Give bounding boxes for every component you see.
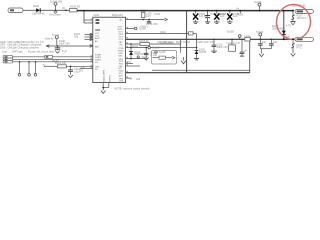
series box on STAT wire [45,55,53,58]
svg-text:R100 0R: R100 0R [70,4,80,8]
node junction with label [62,6,67,11]
svg-text:GND 3: GND 3 [140,24,148,28]
sub-box regulator outline [152,51,177,65]
svg-text:L101 4.7uH: L101 4.7uH [227,41,240,45]
wire diode to resistor [41,9,70,11]
testpoint Tp101 on BAT net [52,33,70,46]
svg-text:R104: R104 [132,44,139,48]
svg-text:TS: TS [80,69,84,73]
svg-text:NOTE: external crystal needed: NOTE: external crystal needed [115,86,150,90]
IC pin name labels right column [118,18,124,82]
svg-text:PG: PG [127,60,131,64]
capacitor C112 drop [258,39,267,49]
jumper drop pins [18,61,37,76]
svg-text:Tp108: Tp108 [254,0,262,4]
svg-text:10k: 10k [81,65,86,69]
svg-text:D100: D100 [33,4,40,8]
svg-text:R102 10k: R102 10k [55,61,67,65]
svg-text:PG: PG [95,62,98,64]
node at x84 [83,10,85,12]
svg-text:ALRT: ALRT [95,37,101,40]
wire between FB and VTSB [130,44,132,51]
connector J101 DC pill [292,4,314,14]
ground arrow inside box [181,57,186,64]
net arrow Vbat wire to BAT pin [45,36,93,47]
svg-text:ADR: ADR [95,29,100,32]
OUT rail2 wire [126,38,295,40]
net arrows into IC left pins [85,33,93,41]
svg-text:Tp105: Tp105 [227,29,235,33]
ground arrow under IC [101,91,106,94]
VFB stub resistor [126,77,141,81]
joined ground of C112 C113 [259,49,271,57]
diode on rail2 at box edge [176,40,215,44]
svg-text:OFFLight: OFFLight [12,49,23,53]
series inductor L102 on rail2 [245,34,251,41]
svg-text:BQ24123: BQ24123 [112,13,123,17]
svg-text:C104: C104 [154,12,161,16]
fuse F100 [291,41,302,53]
svg-text:D102 CMHZ: D102 CMHZ [176,40,191,44]
capacitor C110 drop [211,39,228,53]
net-tie diamond [50,11,62,17]
svg-text:Vbat 4V: Vbat 4V [45,36,54,40]
outer module box left edge [186,11,188,73]
ground under C100 [55,51,60,54]
svg-text:CMHZ: CMHZ [199,50,207,54]
DNI capacitor X1 [193,10,209,24]
outer module box right edge [249,39,251,72]
svg-text:U100: U100 [93,13,100,17]
legend text block [0,40,67,53]
connector J1 input pill [8,8,23,13]
IC pin name labels left column [95,19,102,71]
capacitor C100 [55,46,60,50]
svg-text:ONLight: ONLight [8,45,18,49]
wires header to IC [13,57,93,62]
svg-text:VSS: VSS [119,81,124,83]
SDA long wire [126,72,250,74]
CE2 stub [126,65,140,67]
PG2 stub [126,60,133,64]
node stub x240 [236,6,244,16]
pin number marks left of IC [91,19,93,69]
svg-text:10k: 10k [136,77,141,81]
capacitor C101 [68,66,81,75]
svg-text:1uF: 1uF [273,40,278,44]
capacitor C111 drop [240,39,248,57]
ground under C101 [68,75,73,78]
svg-text:OUT: OUT [119,37,124,39]
polarized capacitor C107 [205,10,225,24]
testpoint Tp104 [256,30,264,39]
pin number marks right of IC [126,18,128,78]
SW1 wire [126,30,207,60]
svg-text:OUT: OUT [119,39,124,41]
svg-text:uF: uF [244,49,247,53]
svg-text:R106: R106 [237,13,244,17]
capacitor C113 drop [269,39,278,49]
svg-text:10uF 16V: 10uF 16V [217,45,228,49]
svg-text:C10x: C10x [160,30,167,34]
testpoint Tp100 [50,0,62,11]
text below rail2 inside box [157,40,185,44]
svg-text:BOT: BOT [119,31,124,33]
svg-text:1uF: 1uF [220,14,225,18]
SW2 wire with testpoint Tp105 [126,50,175,59]
svg-text:C105 10uF 16V: C105 10uF 16V [197,40,215,44]
testpoint Tp105 over rail2 [227,29,242,39]
rail1 end node [292,10,294,12]
svg-text:10k NTC: 10k NTC [297,16,307,20]
svg-text:1uF: 1uF [262,40,267,44]
resistor labels R101 [74,32,81,39]
svg-text:CMPSH-4L: CMPSH-4L [32,12,45,16]
IC vertical part number text [104,68,112,82]
TS wire short [80,65,93,73]
ground under F100 [291,53,296,56]
resistor R102 row into ISET [43,61,93,68]
zener D101 [129,50,148,59]
svg-text:STAT2: STAT2 [95,58,102,61]
svg-text:E-pack fail, chg or fault: E-pack fail, chg or fault [28,49,54,53]
red annotation circle [274,3,312,42]
rail2 end node [292,38,294,40]
VTSB wire [126,44,197,49]
svg-text:L102: L102 [245,34,251,38]
svg-text:TvP: TvP [62,49,67,53]
svg-text:BQ24123RHL: BQ24123RHL [104,68,106,82]
svg-text:10uF 16V: 10uF 16V [59,41,70,45]
svg-text:Tp102: Tp102 [152,45,160,49]
wire VIN rail top [77,10,293,12]
svg-text:Vbat: Vbat [285,35,291,39]
resistor R100 [70,4,81,12]
wire input to diode [23,9,36,11]
ground under C106 [144,58,149,61]
svg-text:R103 2k: R103 2k [139,39,149,43]
DNI capacitor X3 [227,10,240,24]
thermistor R107 [291,11,306,22]
DNI capacitor X2 [214,10,227,24]
svg-text:Jmp: Jmp [2,49,7,53]
inductor L101 drop [227,39,240,52]
connector Vbat pill [295,37,314,41]
SCL thin wire [152,69,250,71]
svg-text:1uH: 1uH [146,14,151,18]
svg-text:PTC: PTC [297,46,302,50]
svg-text:4.7V: 4.7V [286,24,292,28]
svg-text:PWP24: PWP24 [109,74,111,82]
C106 drop [144,48,158,58]
ground under thermistor [290,22,295,25]
svg-text:Net-Class: Net-Class [50,12,62,16]
svg-text:Tp104: Tp104 [256,30,264,34]
AC pin wire with inductor L100 [126,10,168,26]
FB wire with resistor R103 [126,39,181,53]
IC bottom pins and ground [102,83,109,91]
zener D100 vertical branch [272,10,292,41]
connector J100 3-pin header [3,56,13,63]
svg-text:Charging complete: Charging complete [18,45,40,49]
svg-text:Tp100 VIN: Tp100 VIN [50,0,62,3]
wire down to IC pins [84,11,93,23]
svg-text:10k: 10k [74,34,79,38]
testpoint Tp103 on GPIO [126,26,147,30]
testpoint Tp101 top right [254,0,262,12]
svg-text:D1: D1 [62,6,66,10]
diode D100 [32,4,45,16]
svg-text:C04 C05 1uF: C04 C05 1uF [157,40,173,44]
op-amp U100 IC box [93,13,126,83]
svg-text:DGd: DGd [0,45,6,49]
